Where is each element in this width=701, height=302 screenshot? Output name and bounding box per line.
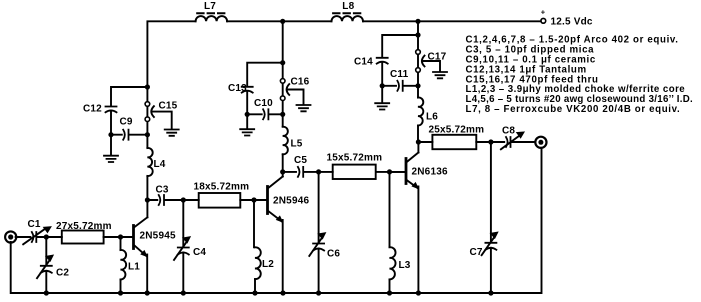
wire stage2 supply vertical	[282, 21, 284, 172]
capacitor C13	[228, 83, 253, 94]
node bottom Q2 emitter	[280, 290, 285, 295]
wire stage1 supply vertical	[146, 87, 148, 217]
inductor L7	[196, 1, 228, 21]
wire bottom ground rail	[11, 148, 542, 293]
node Q2 collector / C5	[280, 169, 285, 174]
inductor L3	[390, 172, 411, 293]
node bottom Q3 emitter	[416, 290, 421, 295]
stripline 18x5.72mm	[194, 182, 250, 208]
node Q3 collector	[416, 139, 421, 144]
wire C14 branch	[382, 35, 418, 86]
node stripline1 / L1	[118, 234, 123, 239]
svg-text:L5: L5	[291, 139, 303, 150]
ground for C16	[297, 105, 311, 111]
node C1 / C2 junction	[44, 234, 49, 239]
inductor L2	[254, 200, 274, 293]
ground under C13	[240, 114, 254, 135]
wire interstage2	[283, 171, 406, 173]
node bottom Q1 emitter	[145, 290, 150, 295]
transistor Q1 2N5945	[121, 217, 176, 293]
stripline 15x5.72mm	[327, 153, 383, 180]
node Q1 collector / C3	[145, 197, 150, 202]
svg-text:C7: C7	[470, 247, 483, 258]
inductor L6	[418, 97, 438, 125]
svg-text:+: +	[541, 8, 546, 17]
node output / C7 junction	[488, 139, 493, 144]
svg-text:12.5 Vdc: 12.5 Vdc	[551, 17, 593, 28]
wire stage3 supply vertical	[417, 21, 419, 142]
output connector J2	[535, 137, 546, 148]
svg-text:C1: C1	[28, 219, 41, 230]
inductor L8	[332, 1, 364, 21]
supply terminal 12.5 Vdc	[541, 8, 593, 28]
svg-text:L8: L8	[342, 1, 354, 12]
wire output stage	[418, 141, 534, 143]
wire C13 branch	[247, 63, 283, 115]
node C10/main line	[280, 112, 285, 117]
transistor Q2 2N5946	[254, 172, 309, 293]
node stage2 bypass tap	[280, 60, 285, 65]
node C9/main line	[145, 132, 150, 137]
node bottom C6	[316, 290, 321, 295]
inductor L5	[283, 127, 303, 155]
ground under C14	[375, 86, 389, 110]
node top rail / stage2	[280, 19, 285, 24]
svg-text:C14: C14	[354, 57, 373, 68]
capacitor C9	[111, 117, 147, 140]
capacitor C14	[354, 57, 388, 68]
node bottom L1	[118, 290, 123, 295]
svg-text:27x5.72mm: 27x5.72mm	[56, 221, 112, 232]
svg-text:L7, 8 – Ferroxcube VK200 20/4B: L7, 8 – Ferroxcube VK200 20/4B or equiv.	[466, 104, 681, 115]
capacitor C7 variable	[470, 142, 498, 293]
capacitor C2 variable	[37, 237, 69, 293]
node stage1 bypass tap	[145, 84, 150, 89]
svg-text:L2: L2	[262, 259, 274, 270]
capacitor C8 variable	[501, 126, 524, 150]
node C3 / C4 junction	[181, 197, 186, 202]
svg-text:25x5.72mm: 25x5.72mm	[429, 125, 485, 136]
inductor L4	[147, 148, 165, 176]
node bottom C2	[44, 290, 49, 295]
stripline 25x5.72mm	[429, 125, 485, 150]
svg-text:C3: C3	[156, 185, 169, 196]
svg-text:C5: C5	[294, 155, 307, 166]
svg-text:L1: L1	[128, 262, 140, 273]
svg-text:C15: C15	[159, 101, 178, 112]
wire interstage1	[147, 199, 266, 201]
svg-text:2N5946: 2N5946	[273, 196, 309, 207]
capacitor C12	[83, 104, 117, 115]
node bottom C7	[488, 290, 493, 295]
svg-text:C9: C9	[120, 117, 133, 128]
svg-text:L6: L6	[426, 112, 438, 123]
node bottom L2	[252, 290, 257, 295]
capacitor C4 variable	[174, 200, 206, 293]
svg-text:C10: C10	[254, 98, 273, 109]
svg-text:C16: C16	[291, 77, 310, 88]
node C11/main line	[415, 83, 420, 88]
svg-text:C8: C8	[502, 126, 515, 137]
capacitor C10	[247, 98, 283, 119]
capacitor C6 variable	[309, 172, 340, 293]
svg-text:2N5945: 2N5945	[140, 231, 176, 242]
svg-text:C13: C13	[228, 83, 247, 94]
svg-text:L3: L3	[399, 260, 411, 271]
wire top supply rail	[147, 21, 541, 87]
node stage3 bypass tap	[415, 32, 420, 37]
ground for C15	[165, 130, 179, 136]
svg-text:L7: L7	[204, 1, 216, 12]
node C12/C9 junction	[108, 132, 113, 137]
node C14/C11 junction	[380, 83, 385, 88]
parts list text	[466, 35, 693, 116]
svg-text:18x5.72mm: 18x5.72mm	[194, 182, 250, 193]
node bottom C4	[181, 290, 186, 295]
wire C12 branch	[111, 87, 147, 135]
node top rail / stage3	[415, 19, 420, 24]
inductor L1	[121, 237, 141, 293]
svg-text:C11: C11	[390, 69, 409, 80]
transistor Q3 2N6136	[390, 142, 448, 293]
node C5 / C6 junction	[316, 169, 321, 174]
svg-text:2N6136: 2N6136	[412, 167, 448, 178]
capacitor C3	[156, 185, 169, 206]
capacitor C15 feed-thru	[145, 101, 178, 129]
svg-text:C12: C12	[83, 104, 102, 115]
svg-text:C2: C2	[56, 268, 69, 279]
svg-text:L4: L4	[154, 159, 166, 170]
svg-text:C6: C6	[327, 249, 340, 260]
capacitor C1 variable	[23, 219, 51, 244]
ground for C17	[433, 72, 447, 78]
ground under C12	[104, 135, 118, 162]
node bottom L3	[387, 290, 392, 295]
capacitor C11	[382, 69, 418, 91]
node C13/C10 junction	[245, 112, 250, 117]
svg-text:C4: C4	[193, 247, 206, 258]
stripline 27x5.72mm	[56, 221, 112, 244]
capacitor C16 feed-thru	[280, 77, 309, 105]
capacitor C17 feed-thru	[416, 50, 447, 73]
svg-text:C17: C17	[428, 52, 447, 63]
svg-text:15x5.72mm: 15x5.72mm	[327, 153, 383, 164]
wire input	[16, 236, 134, 238]
capacitor C5	[294, 155, 307, 177]
input connector J1	[5, 231, 16, 242]
node stripline3 / L3	[387, 169, 392, 174]
node stripline2 / L2	[251, 197, 256, 202]
